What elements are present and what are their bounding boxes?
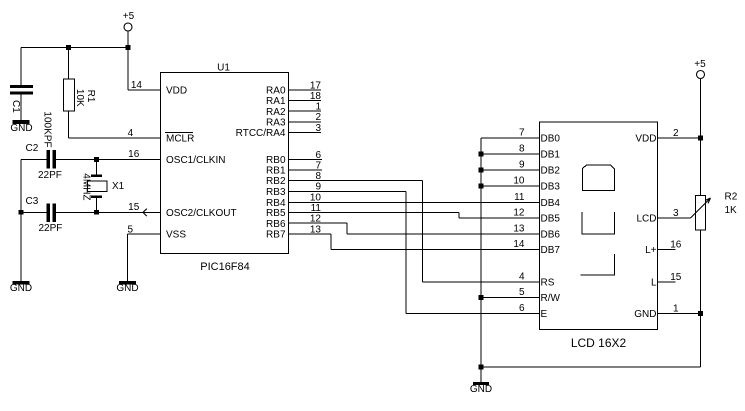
svg-text:16: 16 xyxy=(670,239,682,250)
svg-text:3: 3 xyxy=(673,208,679,219)
svg-text:13: 13 xyxy=(310,224,322,235)
svg-text:5: 5 xyxy=(519,287,525,298)
svg-text:MCLR: MCLR xyxy=(166,134,194,145)
svg-text:22PF: 22PF xyxy=(38,170,62,181)
svg-text:RB3: RB3 xyxy=(266,187,286,198)
svg-text:6: 6 xyxy=(315,150,321,161)
svg-text:10: 10 xyxy=(513,176,525,187)
svg-text:4MHZ: 4MHZ xyxy=(80,173,91,200)
svg-text:RB7: RB7 xyxy=(266,230,286,241)
svg-text:PIC16F84: PIC16F84 xyxy=(200,261,250,273)
svg-text:DB2: DB2 xyxy=(541,166,561,177)
svg-text:DB5: DB5 xyxy=(541,214,561,225)
svg-text:LCD 16X2: LCD 16X2 xyxy=(571,336,627,350)
svg-text:RA2: RA2 xyxy=(266,107,286,118)
svg-text:RB2: RB2 xyxy=(266,176,286,187)
svg-text:2: 2 xyxy=(673,128,679,139)
svg-text:RTCC/RA4: RTCC/RA4 xyxy=(236,128,286,139)
svg-text:3: 3 xyxy=(315,123,321,134)
svg-text:DB1: DB1 xyxy=(541,150,561,161)
svg-text:100KPF: 100KPF xyxy=(42,111,53,147)
svg-text:11: 11 xyxy=(514,192,525,203)
svg-text:1: 1 xyxy=(673,304,679,315)
svg-text:RA0: RA0 xyxy=(266,86,286,97)
svg-text:5: 5 xyxy=(127,224,133,235)
svg-text:LCD: LCD xyxy=(636,214,656,225)
svg-text:C3: C3 xyxy=(26,196,39,207)
svg-text:1: 1 xyxy=(315,102,321,113)
svg-text:X1: X1 xyxy=(112,181,125,192)
svg-text:VDD: VDD xyxy=(635,134,656,145)
svg-text:R/W: R/W xyxy=(541,293,561,304)
svg-text:DB6: DB6 xyxy=(541,230,561,241)
svg-text:4: 4 xyxy=(519,272,525,283)
svg-text:18: 18 xyxy=(310,91,322,102)
svg-text:OSC2/CLKOUT: OSC2/CLKOUT xyxy=(166,208,237,219)
svg-text:DB3: DB3 xyxy=(541,182,561,193)
svg-text:2: 2 xyxy=(315,112,321,123)
svg-text:L+: L+ xyxy=(645,245,657,256)
svg-text:16: 16 xyxy=(128,149,140,160)
svg-text:15: 15 xyxy=(670,272,682,283)
svg-text:10K: 10K xyxy=(74,89,85,107)
svg-text:GND: GND xyxy=(116,283,138,294)
svg-text:4: 4 xyxy=(128,128,134,139)
svg-text:7: 7 xyxy=(315,160,321,171)
svg-text:GND: GND xyxy=(634,309,656,320)
svg-text:U1: U1 xyxy=(217,63,230,74)
svg-text:E: E xyxy=(541,309,548,320)
svg-text:GND: GND xyxy=(10,283,32,294)
svg-text:DB7: DB7 xyxy=(541,245,561,256)
svg-text:12: 12 xyxy=(513,208,525,219)
svg-text:15: 15 xyxy=(128,202,140,213)
svg-text:9: 9 xyxy=(519,160,525,171)
svg-text:9: 9 xyxy=(315,182,321,193)
svg-text:+5: +5 xyxy=(694,59,706,70)
svg-text:R1: R1 xyxy=(85,90,96,103)
svg-text:RB6: RB6 xyxy=(266,219,286,230)
svg-text:7: 7 xyxy=(519,128,525,139)
svg-text:C1: C1 xyxy=(10,100,21,113)
svg-text:DB0: DB0 xyxy=(541,134,561,145)
svg-text:RB1: RB1 xyxy=(266,166,286,177)
svg-text:VSS: VSS xyxy=(166,230,186,241)
svg-text:8: 8 xyxy=(315,171,321,182)
svg-text:8: 8 xyxy=(519,144,525,155)
svg-text:RS: RS xyxy=(541,278,555,289)
svg-text:14: 14 xyxy=(131,80,143,91)
svg-text:L: L xyxy=(651,278,657,289)
svg-text:RA1: RA1 xyxy=(266,96,286,107)
svg-text:+5: +5 xyxy=(123,11,135,22)
svg-text:12: 12 xyxy=(310,214,322,225)
svg-text:22PF: 22PF xyxy=(39,223,63,234)
svg-text:13: 13 xyxy=(513,224,525,235)
svg-text:RB5: RB5 xyxy=(266,208,286,219)
svg-text:C2: C2 xyxy=(26,143,39,154)
svg-text:17: 17 xyxy=(310,80,322,91)
svg-text:6: 6 xyxy=(519,303,525,314)
svg-text:1K: 1K xyxy=(725,205,738,216)
svg-text:VDD: VDD xyxy=(166,86,187,97)
svg-text:RB0: RB0 xyxy=(266,155,286,166)
svg-text:DB4: DB4 xyxy=(541,198,561,209)
svg-text:GND: GND xyxy=(10,123,32,134)
svg-text:R2: R2 xyxy=(725,192,738,203)
svg-text:14: 14 xyxy=(513,239,525,250)
svg-text:OSC1/CLKIN: OSC1/CLKIN xyxy=(166,155,225,166)
svg-text:11: 11 xyxy=(311,203,322,214)
svg-text:RA3: RA3 xyxy=(266,117,286,128)
svg-text:GND: GND xyxy=(470,384,492,395)
